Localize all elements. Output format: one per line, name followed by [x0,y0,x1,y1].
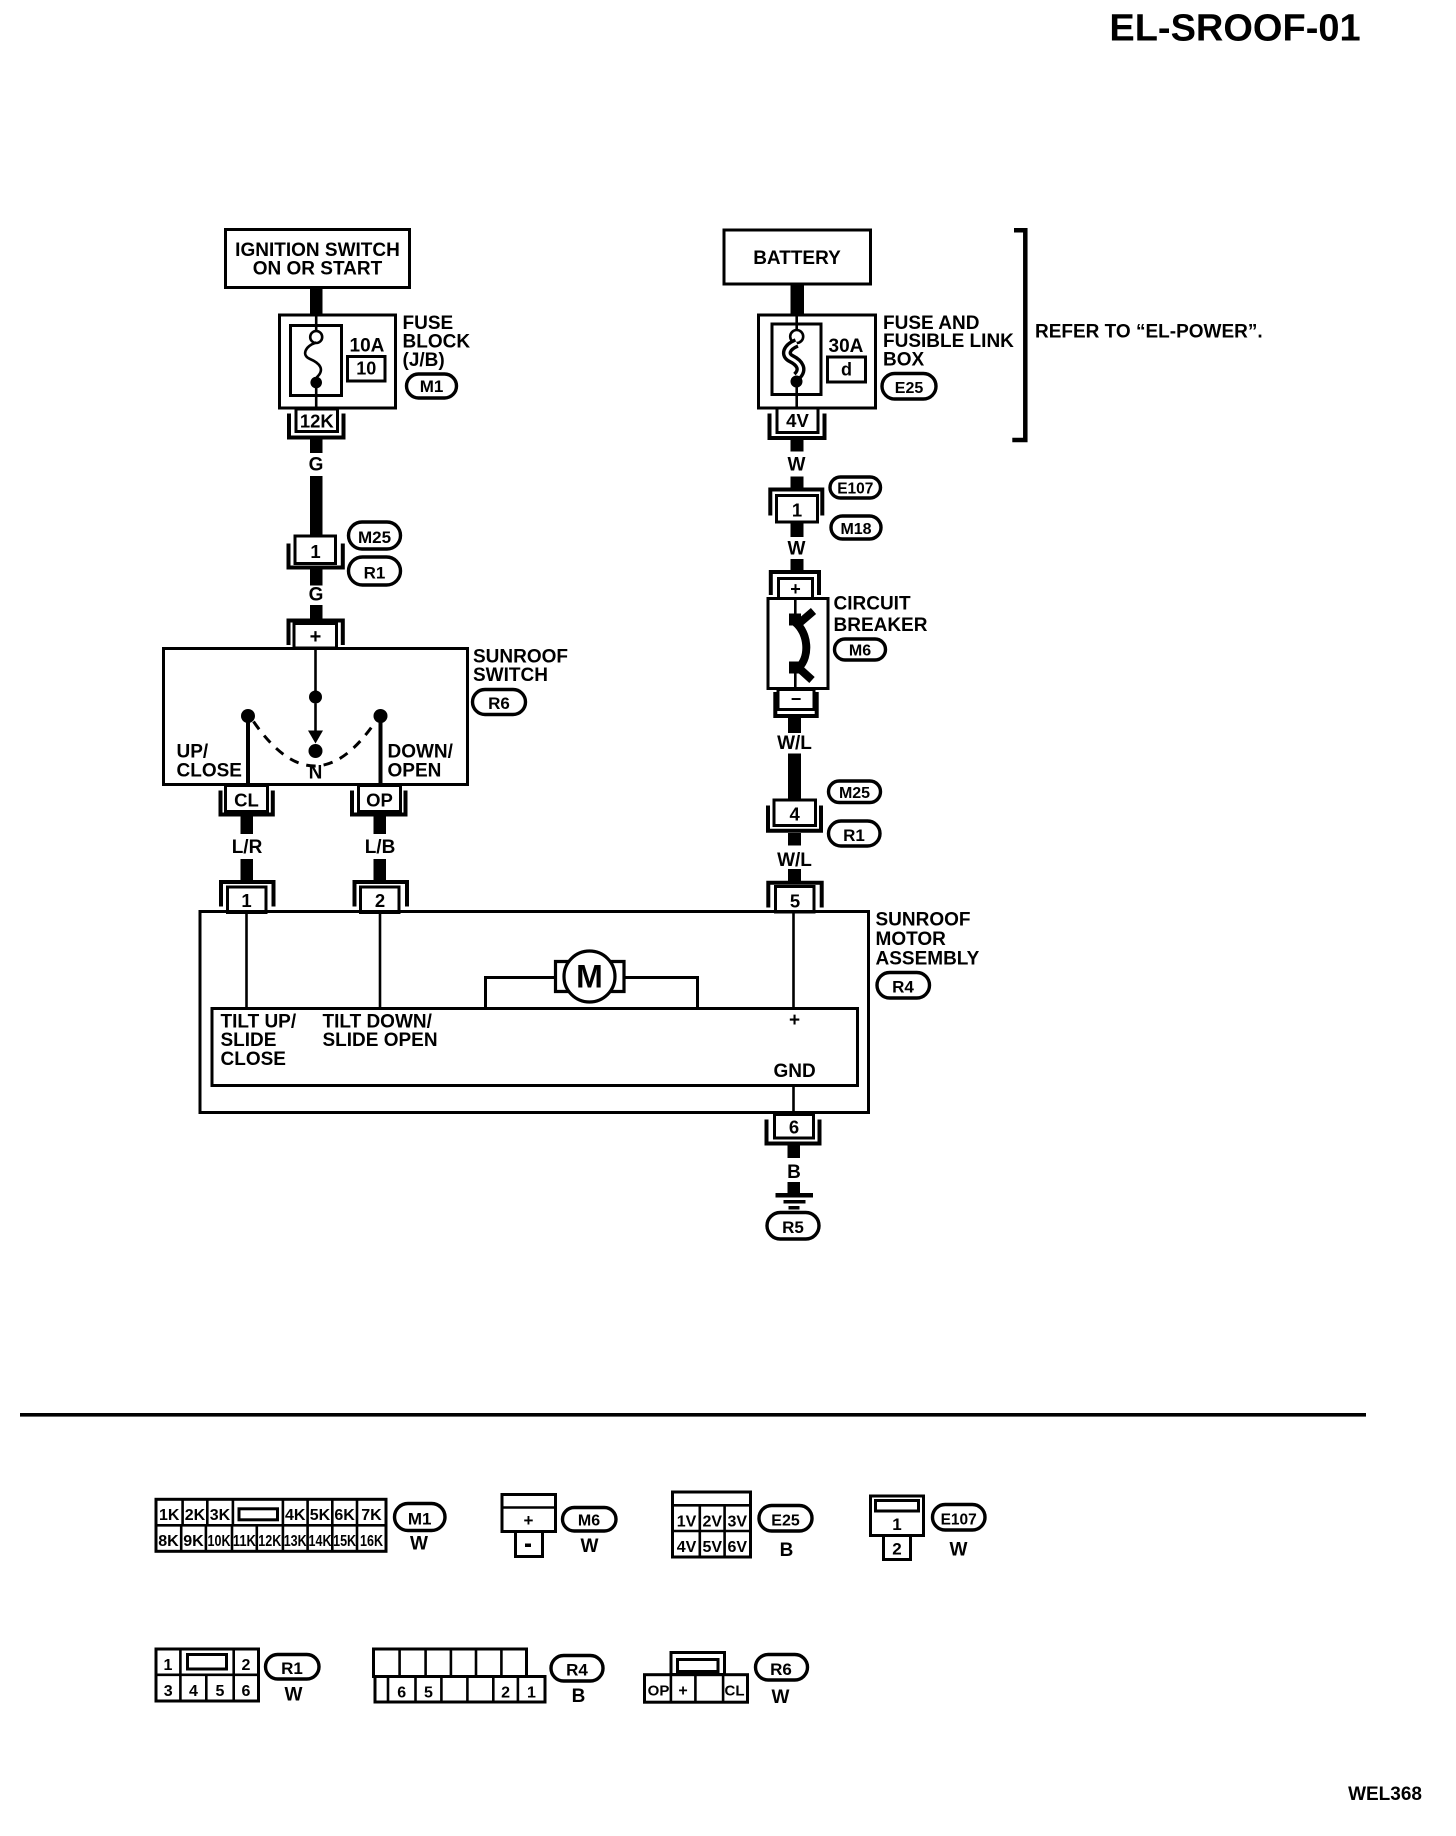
svg-text:M6: M6 [849,643,871,660]
svg-text:SLIDE OPEN: SLIDE OPEN [323,1030,438,1051]
svg-text:W: W [788,455,806,476]
wire 4V to W [791,438,804,452]
motor pin 2 box [361,887,400,913]
terminal + box [294,624,337,649]
svg-text:d: d [841,360,852,380]
svg-text:CL: CL [234,790,259,811]
wire GND internal [792,1086,795,1115]
svg-text:9K: 9K [183,1533,204,1550]
wire motor left [486,978,556,1009]
svg-text:SWITCH: SWITCH [473,665,548,686]
svg-text:6K: 6K [334,1507,355,1524]
svg-text:2: 2 [242,1657,251,1674]
svg-text:5: 5 [790,891,800,912]
sunroof motor assembly R4 box [200,912,869,1113]
svg-text:BATTERY: BATTERY [753,248,841,269]
svg-text:CL: CL [725,1683,745,1700]
connector R1 pin grid [156,1649,259,1701]
svg-text:2V: 2V [703,1514,723,1531]
contact DOWN/OPEN dot [374,709,388,723]
connector M1 pin grid [156,1499,386,1551]
switch throw dashed arc [254,722,376,767]
terminal OP box [359,786,401,812]
connector oval R1 [349,557,401,585]
motor pin 5 box [776,887,815,913]
connector oval M1 detail [395,1504,446,1531]
fuse number 10 box [348,357,386,382]
svg-text:R5: R5 [782,1218,804,1237]
battery box [724,230,871,284]
wire W/L to connector 4 [788,754,801,800]
connector oval R4 [877,973,930,999]
svg-text:+: + [789,1010,800,1031]
connector 4 (M25/R1) box [774,800,816,826]
svg-text:M25: M25 [839,785,870,802]
svg-text:ASSEMBLY: ASSEMBLY [876,948,980,969]
svg-text:7K: 7K [361,1507,382,1524]
svg-text:2: 2 [375,890,385,911]
wire UP contact to CL [246,716,250,784]
connector M6 detail [502,1495,556,1557]
fusible link letter d box [828,357,866,382]
connector oval R1 right [829,821,881,846]
connector E107/M18 bracket [770,490,822,516]
wire CL down [241,815,254,835]
breaker + terminal bracket [771,572,819,595]
connector oval R1 detail [266,1655,320,1680]
connector 4 bracket [768,806,821,831]
connector E25 pin grid [673,1492,751,1557]
motor pin 2 bracket [355,882,408,907]
svg-text:15K: 15K [333,1533,356,1550]
contact N dot [309,744,323,758]
connector R6 pin grid [645,1653,748,1703]
breaker - terminal bracket [775,692,816,716]
wire L/B to motor pin 2 [374,859,387,880]
svg-text:OP: OP [648,1683,670,1700]
svg-text:1V: 1V [677,1514,697,1531]
fuse and fusible link box E25 [759,315,876,408]
svg-text:R4: R4 [566,1661,588,1680]
wire L/R to motor pin 1 [241,859,254,880]
terminal 12K bracket [289,414,344,438]
motor left bracket [556,962,569,992]
wire W to breaker + [791,559,804,572]
svg-text:8K: 8K [158,1533,179,1550]
wire 12K to G [310,440,323,454]
svg-text:2: 2 [501,1685,510,1702]
svg-text:W: W [581,1536,599,1557]
connector R4 pin grid [374,1649,546,1702]
svg-text:L/B: L/B [365,837,396,858]
motor internal function box [212,1009,858,1086]
motor pin 6 box [775,1115,814,1139]
wire pin5 internal [792,913,795,1008]
connector oval M1 [407,374,457,398]
svg-text:BREAKER: BREAKER [834,615,928,636]
separator line [20,1413,1366,1417]
terminal CL box [226,786,268,812]
connector 1 (M25/R1) box [295,536,336,564]
svg-text:SUNROOF: SUNROOF [876,909,971,930]
svg-text:N: N [309,763,323,784]
svg-text:12K: 12K [258,1533,281,1550]
svg-text:W/L: W/L [777,850,812,871]
svg-text:GND: GND [774,1061,816,1082]
svg-text:5: 5 [216,1683,225,1700]
connector oval M18 [831,516,881,539]
svg-text:2K: 2K [185,1507,206,1524]
terminal OP bracket [352,791,406,815]
svg-text:OPEN: OPEN [388,761,442,782]
connector 1 bracket [289,544,343,568]
connector oval M6 [835,639,886,660]
svg-text:10A: 10A [350,336,385,357]
svg-text:6: 6 [242,1683,251,1700]
svg-text:UP/: UP/ [177,742,209,763]
svg-text:R6: R6 [770,1660,792,1679]
common contact dot [309,691,322,704]
svg-text:3V: 3V [728,1514,748,1531]
svg-text:1: 1 [892,1515,901,1534]
svg-text:4: 4 [189,1683,198,1700]
breaker - terminal box [778,690,814,710]
svg-text:EL-SROOF-01: EL-SROOF-01 [1109,8,1360,50]
svg-text:R1: R1 [281,1659,303,1678]
svg-text:1: 1 [527,1685,536,1702]
svg-text:10: 10 [356,359,376,379]
wire W to E107 [791,477,804,491]
svg-text:WEL368: WEL368 [1348,1784,1422,1805]
svg-text:BOX: BOX [883,350,925,371]
svg-text:R6: R6 [488,694,510,713]
svg-text:R1: R1 [843,826,865,845]
fusible link d symbol box [772,324,821,395]
svg-text:M1: M1 [420,377,444,396]
svg-text:G: G [309,455,324,476]
circuit breaker element [794,600,797,619]
svg-text:M1: M1 [408,1510,432,1529]
svg-text:13K: 13K [284,1533,307,1550]
connector oval M6 detail [563,1508,617,1532]
terminal CL bracket [221,791,273,815]
wire breaker to W/L [788,716,801,733]
wire G to connector 1 [310,476,323,536]
svg-text:L/R: L/R [232,837,263,858]
svg-text:5K: 5K [310,1507,331,1524]
svg-text:1: 1 [792,500,802,521]
svg-text:E25: E25 [771,1513,800,1530]
circuit breaker M6 box [768,599,828,689]
terminal 4V box [777,408,818,433]
svg-text:1K: 1K [159,1507,180,1524]
motor pin 6 bracket [767,1120,820,1144]
svg-text:B: B [572,1686,586,1707]
svg-text:G: G [309,585,324,606]
svg-text:6: 6 [789,1117,799,1138]
breaker + terminal box [779,579,813,599]
terminal 4V bracket [770,414,825,439]
svg-text:1: 1 [310,541,320,562]
fuse element 10A [315,315,318,332]
ground symbol [776,1193,814,1198]
wire pin2 internal [379,913,382,1008]
svg-text:6: 6 [397,1685,406,1702]
motor pin 5 bracket [768,883,821,908]
svg-text:11K: 11K [233,1533,256,1550]
connector oval R4 detail [551,1656,603,1682]
svg-text:14K: 14K [309,1533,332,1550]
motor pin 1 box [228,887,267,913]
motor M symbol [564,951,615,1002]
svg-text:MOTOR: MOTOR [876,929,947,950]
switch actuator arrow [314,704,317,732]
svg-text:4V: 4V [786,410,809,431]
wire E107 to W [791,522,804,537]
connector oval R6 detail [756,1655,808,1681]
svg-text:5V: 5V [703,1539,723,1556]
svg-text:1: 1 [241,890,251,911]
terminal + bracket [289,621,343,646]
svg-text:DOWN/: DOWN/ [388,742,454,763]
contact UP/CLOSE dot [241,709,255,723]
svg-text:M25: M25 [358,528,391,547]
svg-text:12K: 12K [300,411,335,432]
svg-text:+: + [678,1683,687,1700]
svg-text:1: 1 [164,1657,173,1674]
sunroof switch R6 box [164,649,468,785]
refer to EL-POWER bracket [1012,230,1025,440]
svg-text:3K: 3K [210,1507,231,1524]
svg-text:CIRCUIT: CIRCUIT [834,594,911,615]
svg-text:ON OR START: ON OR START [253,259,383,280]
svg-text:5: 5 [424,1685,433,1702]
svg-text:30A: 30A [829,336,864,357]
wire battery to fusible link [791,284,805,315]
connector oval E107 [830,477,881,498]
svg-text:REFER TO “EL-POWER”.: REFER TO “EL-POWER”. [1035,322,1263,343]
wire OP down [374,815,387,835]
svg-text:6V: 6V [728,1539,748,1556]
wire + to common contact [314,649,317,691]
svg-text:+: + [310,626,322,648]
svg-text:W: W [772,1687,790,1708]
ignition switch box [226,230,410,288]
connector oval E107 detail [933,1505,986,1531]
wire connector 4 down [788,833,801,846]
motor right bracket [611,962,624,992]
svg-text:OP: OP [366,790,393,811]
connector E107/M18 pin 1 box [777,496,818,523]
wire motor right [624,978,698,1009]
svg-text:W: W [285,1685,303,1706]
svg-text:B: B [780,1540,794,1561]
fuse block M1 box [280,315,396,408]
svg-text:3: 3 [164,1683,173,1700]
wire G to + terminal [310,605,323,619]
wire pin 6 down [788,1144,801,1159]
connector oval E25 detail [759,1506,812,1532]
svg-text:B: B [787,1162,801,1183]
svg-text:2: 2 [892,1540,901,1559]
svg-text:4: 4 [790,804,801,825]
connector E107 detail [871,1496,924,1560]
wire ignition to fuse block [310,287,323,317]
svg-text:+: + [524,1511,534,1530]
wire DOWN contact to OP [379,716,383,784]
ground oval R5 [767,1213,819,1240]
wire B to ground [788,1182,801,1194]
svg-text:M18: M18 [840,521,871,538]
motor pin 1 bracket [221,882,274,907]
connector oval E25 [882,374,936,400]
wire pin1 internal [245,913,248,1008]
wire W/L to motor pin 5 [788,869,801,881]
svg-text:+: + [790,579,801,599]
connector oval M25 [349,522,401,549]
svg-text:4K: 4K [285,1507,306,1524]
svg-text:−: − [791,689,802,709]
connector oval R6 [473,690,526,715]
svg-text:4V: 4V [677,1539,697,1556]
connector oval M25 right [829,781,881,803]
svg-text:R4: R4 [892,978,914,997]
svg-text:W/L: W/L [777,733,812,754]
svg-text:E107: E107 [837,481,873,498]
svg-text:10K: 10K [208,1533,231,1550]
svg-text:CLOSE: CLOSE [221,1049,286,1070]
svg-text:W: W [788,539,806,560]
terminal 12K box [296,409,338,432]
svg-text:W: W [410,1534,428,1555]
svg-text:E25: E25 [895,380,924,397]
svg-text:CLOSE: CLOSE [177,761,242,782]
svg-text:16K: 16K [360,1533,383,1550]
svg-text:W: W [950,1540,968,1561]
svg-text:M: M [576,959,603,995]
svg-text:E107: E107 [941,1512,977,1529]
svg-text:(J/B): (J/B) [403,350,445,371]
svg-text:R1: R1 [364,564,386,583]
svg-text:M6: M6 [578,1513,600,1530]
fusible link element [795,315,798,331]
fuse F10 symbol box [291,326,342,396]
wire connector 1 to G [310,568,323,586]
